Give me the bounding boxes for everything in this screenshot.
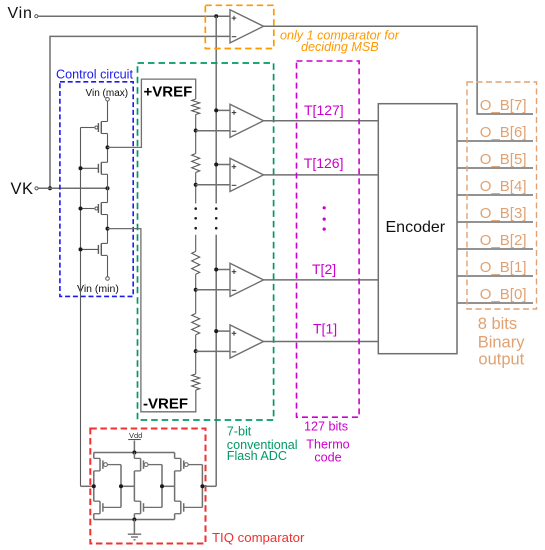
wire inv1 pmos drain to node	[93, 471, 95, 486]
wire T[127] output	[264, 120, 379, 122]
node comparator3 + tap	[214, 268, 218, 272]
svg-text:-VREF: -VREF	[143, 396, 188, 413]
wire inv2 pmos source	[133, 453, 135, 459]
node comparator4 + tap	[214, 329, 218, 333]
resistor R4	[192, 314, 200, 335]
svg-text:O_B[0]: O_B[0]	[480, 286, 527, 303]
wire inv3 gate line	[201, 465, 203, 508]
node -VREF tap junction	[106, 227, 110, 231]
wire inv1 gate line	[120, 465, 122, 508]
node Vdd junction	[132, 451, 136, 455]
transistor M6 NMOS (inverter 3)	[175, 501, 203, 514]
wire ground rail	[94, 519, 175, 521]
wire VK to control circuit	[38, 187, 107, 189]
resistor R2	[192, 154, 200, 173]
wire O_B[1] output	[457, 275, 533, 277]
resistor R5	[192, 374, 200, 390]
label T[1]	[313, 321, 337, 337]
node tap T127	[194, 129, 198, 133]
binary output box (tan dashed)	[467, 82, 537, 309]
label O_B[0]	[480, 286, 527, 303]
label 7-bit conventional Flash ADC	[227, 424, 298, 463]
label Vdd	[128, 431, 142, 440]
wire Vdd rail	[94, 452, 175, 454]
wire O_B[3] output	[457, 221, 533, 223]
op-amp comparator C126	[230, 158, 264, 191]
svg-text:Vin (min): Vin (min)	[77, 283, 119, 295]
resistor R3	[192, 251, 200, 274]
svg-text:O_B[4]: O_B[4]	[480, 178, 527, 195]
wire comparator1 + input stub	[216, 109, 230, 111]
wire Vdd stub	[133, 441, 135, 453]
wire Q2-Q3 segment	[107, 174, 109, 202]
node ground junction	[132, 518, 136, 522]
label T[2]	[312, 261, 336, 277]
svg-text:Flash ADC: Flash ADC	[227, 449, 287, 463]
wire O_B[5] output	[457, 167, 533, 169]
svg-text:T[126]: T[126]	[304, 155, 344, 171]
op-amp comparator C127	[230, 104, 264, 137]
wire comparator1 - input from ladder	[196, 130, 230, 132]
label T[126]	[304, 155, 344, 171]
wire O_B[2] output	[457, 248, 533, 250]
label +VREF	[144, 83, 193, 100]
wire Vin vertical distribution line (lower)	[215, 235, 217, 486]
wire inv2 gate line	[161, 465, 163, 508]
wire Vin(max) to Q1	[107, 101, 109, 122]
transistor M3 PMOS (inverter 2)	[134, 458, 162, 471]
svg-text:Control circuit: Control circuit	[56, 67, 133, 81]
node tap T1	[194, 349, 198, 353]
wire inv3 nmos source to gnd rail	[174, 514, 176, 520]
terminal VK	[35, 187, 38, 190]
wire inv3 pmos source	[174, 453, 176, 459]
node tap T126	[194, 183, 198, 187]
wire Q4 to Vin(min)	[107, 256, 109, 277]
node VK-chain junction	[106, 186, 110, 190]
wire inv3 node to nmos	[174, 486, 176, 501]
wire comparator2 - input from ladder	[196, 184, 230, 186]
wire inv2 node to nmos	[133, 486, 135, 501]
wire inv3 pmos drain to node	[174, 471, 176, 486]
wire inv1 nmos source to gnd rail	[93, 514, 95, 520]
node comparator2 + tap	[214, 163, 218, 167]
label O_B[3]	[480, 205, 527, 222]
svg-text:T[1]: T[1]	[313, 321, 337, 337]
wire control to -VREF node	[108, 229, 196, 412]
node inv1 output	[92, 484, 96, 488]
svg-text:O_B[5]: O_B[5]	[480, 151, 527, 168]
wire inv3 gates to output	[202, 485, 216, 487]
op-amp U_MSB comparator	[230, 10, 264, 43]
node inv2 gate junction	[160, 484, 164, 488]
wire comparator2 + input stub	[216, 164, 230, 166]
wire inv2 pmos drain to node	[133, 471, 135, 486]
label Vin (min)	[77, 283, 119, 295]
input terminal Vin label	[8, 5, 33, 22]
node VK junction at x50	[48, 186, 52, 190]
wire comparator4 - input from ladder	[196, 350, 230, 352]
node inv3 gate junction	[200, 484, 204, 488]
wire ladder seg4	[195, 274, 197, 313]
resistor R1	[192, 99, 200, 114]
node inv1 gate junction	[119, 484, 123, 488]
svg-text:+VREF: +VREF	[144, 83, 193, 100]
wire MSB comparator - input from VK	[50, 36, 230, 188]
terminal Vin(max)	[106, 98, 110, 102]
node tap T2	[194, 288, 198, 292]
terminal Vin(min)	[106, 277, 110, 281]
svg-text:Thermo: Thermo	[306, 438, 349, 452]
wire comparator3 + input stub	[216, 269, 230, 271]
svg-text:O_B[6]: O_B[6]	[480, 124, 527, 141]
node +VREF tap junction	[106, 145, 110, 149]
svg-text:T[2]: T[2]	[312, 261, 336, 277]
wire comparator3 - input from ladder	[196, 289, 230, 291]
wire ladder seg5	[195, 335, 197, 374]
input terminal VK label	[11, 180, 34, 198]
wire T[126] output	[264, 174, 379, 176]
svg-text:deciding MSB: deciding MSB	[301, 40, 379, 54]
transistor M4 NMOS (inverter 2)	[134, 501, 162, 514]
label T[127]	[304, 102, 344, 118]
label O_B[1]	[480, 259, 527, 276]
wire O_B[6] output	[457, 140, 533, 142]
svg-text:Binary: Binary	[478, 333, 526, 351]
wire O_B[4] output	[457, 194, 533, 196]
svg-text:T[127]: T[127]	[304, 102, 344, 118]
svg-text:8 bits: 8 bits	[478, 315, 517, 333]
label 127 bits Thermo code	[304, 420, 350, 465]
wire gate bus	[80, 128, 82, 487]
svg-text:Vdd: Vdd	[129, 431, 142, 440]
label O_B[4]	[480, 178, 527, 195]
wire comparator4 + input stub	[216, 330, 230, 332]
wire control to +VREF node	[108, 79, 196, 147]
label Control circuit	[56, 67, 133, 81]
label TIQ comparator	[212, 530, 305, 545]
vin line ellipsis dots	[215, 207, 218, 229]
wire ladder seg2	[195, 173, 197, 204]
wire inv2 gates to inv3 node	[162, 485, 175, 487]
label -VREF	[143, 396, 188, 413]
thermo code box (magenta dashed)	[297, 61, 360, 417]
transistor Q4 NMOS	[81, 243, 108, 255]
wire ladder seg1	[195, 115, 197, 154]
svg-text:Encoder: Encoder	[386, 219, 446, 236]
node Q3 gate junction	[79, 207, 83, 211]
svg-text:O_B[3]: O_B[3]	[480, 205, 527, 222]
wire inv1 pmos source	[93, 453, 95, 459]
transistor M5 PMOS (inverter 3)	[175, 458, 203, 471]
svg-text:TIQ comparator: TIQ comparator	[212, 530, 305, 545]
svg-text:O_B[1]: O_B[1]	[480, 259, 527, 276]
node Q2 gate junction	[79, 166, 83, 170]
op-amp comparator C1	[230, 325, 264, 358]
control circuit box (blue dashed)	[60, 82, 133, 297]
TIQ comparator box (red dashed)	[90, 429, 205, 544]
wire MSB output to O_B[7]	[264, 26, 534, 114]
label O_B[6]	[480, 124, 527, 141]
svg-text:O_B[7]: O_B[7]	[480, 97, 527, 114]
label O_B[2]	[480, 232, 527, 249]
op-amp comparator C2	[230, 263, 264, 296]
ground symbol	[128, 534, 141, 540]
transistor M1 PMOS (inverter 1)	[94, 458, 121, 471]
annotation text only 1 comparator for deciding MSB	[280, 28, 400, 54]
svg-text:127 bits: 127 bits	[304, 420, 348, 434]
label Encoder	[386, 219, 446, 236]
svg-text:Vin: Vin	[8, 5, 33, 22]
transistor Q2 NMOS	[81, 162, 108, 174]
svg-text:VK: VK	[11, 180, 34, 198]
label 8 bits Binary output	[478, 315, 526, 368]
transistor Q1 PMOS	[81, 122, 108, 134]
thermo ellipsis	[323, 206, 326, 231]
wire Vin vertical distribution line (upper)	[215, 16, 217, 203]
wire TIQ input from gate bus	[81, 485, 94, 487]
svg-text:7-bit: 7-bit	[227, 424, 252, 438]
svg-text:code: code	[314, 451, 341, 465]
transistor Q3 PMOS	[81, 203, 108, 215]
ladder ellipsis dots	[194, 207, 197, 229]
wire ground stub	[133, 520, 135, 535]
wire Vin to MSB comparator + input	[38, 15, 230, 17]
wire ladder seg3	[195, 235, 197, 252]
label O_B[5]	[480, 151, 527, 168]
wire T[2] output	[264, 279, 379, 281]
terminal Vin	[35, 15, 38, 18]
encoder box	[378, 104, 457, 354]
node Vin branch junction	[214, 14, 218, 18]
transistor M2 NMOS (inverter 1)	[94, 501, 121, 514]
svg-text:O_B[2]: O_B[2]	[480, 232, 527, 249]
wire inv1 node to nmos	[93, 486, 95, 501]
label Vin (max)	[86, 88, 129, 99]
node Q4 gate junction	[79, 247, 83, 251]
wire inv2 nmos source to gnd rail	[133, 514, 135, 520]
wire Q1-Q2 segment	[107, 134, 109, 163]
wire O_B[0] output	[457, 302, 533, 304]
wire Q3-Q4 segment	[107, 215, 109, 244]
node comparator1 + tap	[214, 108, 218, 112]
wire T[1] output	[264, 341, 379, 343]
svg-text:output: output	[478, 350, 524, 368]
flash ADC box (green dashed)	[138, 63, 274, 420]
label O_B[7]	[480, 97, 527, 114]
annotation box only-1-comparator (orange dashed)	[205, 5, 273, 48]
wire inv1 gates to inv2 node	[121, 485, 134, 487]
